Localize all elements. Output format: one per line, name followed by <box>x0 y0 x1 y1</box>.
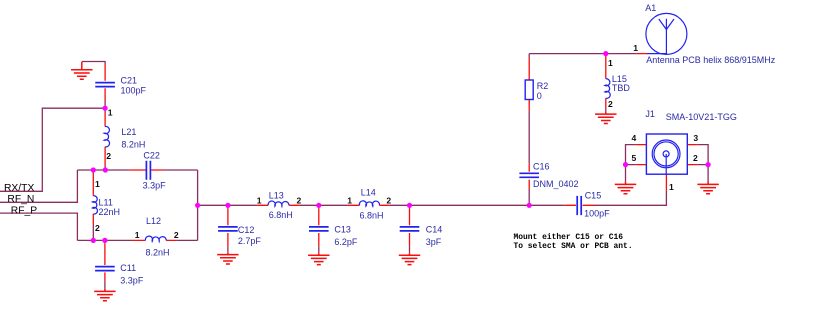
svg-text:C15: C15 <box>585 191 602 201</box>
svg-text:1: 1 <box>95 179 100 189</box>
svg-text:2: 2 <box>608 99 613 109</box>
svg-text:2: 2 <box>95 223 100 233</box>
svg-text:J1: J1 <box>645 109 655 119</box>
svg-text:8.2nH: 8.2nH <box>121 140 145 150</box>
svg-text:1: 1 <box>347 195 352 205</box>
svg-text:2: 2 <box>693 153 698 163</box>
svg-text:C13: C13 <box>334 225 351 235</box>
svg-text:6.2pF: 6.2pF <box>334 237 358 247</box>
svg-text:SMA-10V21-TGG: SMA-10V21-TGG <box>666 112 737 122</box>
svg-text:4: 4 <box>632 133 637 143</box>
svg-text:C14: C14 <box>426 224 443 234</box>
svg-text:1: 1 <box>135 230 140 240</box>
svg-text:8.2nH: 8.2nH <box>146 247 170 257</box>
svg-text:3pF: 3pF <box>426 237 442 247</box>
svg-text:1: 1 <box>608 58 613 68</box>
svg-text:1: 1 <box>108 108 113 118</box>
svg-text:100pF: 100pF <box>584 209 610 219</box>
svg-text:TBD: TBD <box>612 83 631 93</box>
svg-text:C12: C12 <box>238 225 255 235</box>
svg-text:C11: C11 <box>120 263 136 273</box>
svg-text:2: 2 <box>106 151 111 161</box>
svg-text:RF_P: RF_P <box>11 206 37 217</box>
svg-text:2: 2 <box>297 195 302 205</box>
svg-text:C16: C16 <box>533 161 550 171</box>
svg-text:C21: C21 <box>121 76 138 86</box>
svg-text:RX/TX: RX/TX <box>4 183 34 194</box>
svg-text:A1: A1 <box>645 3 656 13</box>
svg-text:3: 3 <box>693 133 698 143</box>
svg-text:DNM_0402: DNM_0402 <box>533 179 579 189</box>
svg-text:To select SMA or PCB ant.: To select SMA or PCB ant. <box>514 242 633 251</box>
svg-text:1: 1 <box>257 195 262 205</box>
svg-text:2: 2 <box>174 230 179 240</box>
svg-text:5: 5 <box>632 153 637 163</box>
svg-text:R2: R2 <box>537 81 549 91</box>
svg-text:6.8nH: 6.8nH <box>360 211 384 221</box>
svg-text:100pF: 100pF <box>121 86 147 96</box>
svg-text:L14: L14 <box>361 188 376 198</box>
svg-text:RF_N: RF_N <box>7 194 34 205</box>
svg-text:0: 0 <box>537 91 542 101</box>
svg-text:L13: L13 <box>269 191 284 201</box>
svg-text:L21: L21 <box>121 127 136 137</box>
svg-text:L12: L12 <box>146 216 161 226</box>
svg-text:3.3pF: 3.3pF <box>143 181 167 191</box>
svg-text:2: 2 <box>386 195 391 205</box>
svg-text:1: 1 <box>633 43 638 53</box>
svg-text:3.3pF: 3.3pF <box>120 276 144 286</box>
svg-text:22nH: 22nH <box>99 207 121 217</box>
svg-text:1: 1 <box>669 182 674 192</box>
svg-text:C22: C22 <box>143 151 160 161</box>
svg-text:Mount either C15 or C16: Mount either C15 or C16 <box>514 233 624 242</box>
svg-text:6.8nH: 6.8nH <box>269 210 293 220</box>
svg-text:2.7pF: 2.7pF <box>238 236 262 246</box>
svg-text:Antenna PCB helix 868/915MHz: Antenna PCB helix 868/915MHz <box>646 55 776 65</box>
svg-text:L11: L11 <box>99 197 113 207</box>
